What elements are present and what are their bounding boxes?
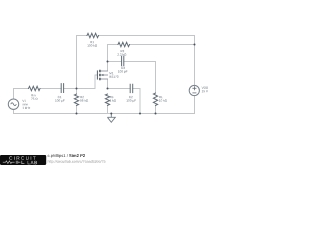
wire source node row to C2 and down to rail — [108, 89, 141, 114]
wire VDD vertical — [194, 45, 196, 114]
resistor RL 10k vertical — [153, 93, 157, 105]
wire V1 bottom lead — [13, 109, 15, 113]
capacitor C2 100uF plates — [130, 84, 133, 92]
junction dots — [76, 44, 196, 115]
voltage source V2 VDD 15V — [189, 85, 199, 95]
resistor R1 100k — [87, 33, 99, 37]
node drain/C3/R3 — [107, 61, 109, 63]
capacitor C3 100pF plates — [122, 56, 124, 65]
resistor R2 56k vertical — [74, 94, 78, 106]
label R3 — [118, 50, 127, 56]
node gate/C1/R1/R2 — [76, 88, 78, 90]
resistor Rs 1k vertical — [105, 94, 109, 105]
label M1 — [110, 72, 119, 78]
resistor Rin 75ohm — [29, 86, 41, 90]
label Rin — [31, 94, 37, 100]
label C1 — [55, 96, 64, 102]
wire ground rail — [14, 113, 195, 115]
capacitor C1 100uF plates — [61, 84, 63, 93]
wire gate lead — [95, 75, 97, 89]
label R1 — [87, 41, 97, 47]
ground symbol — [107, 114, 115, 123]
wire R1 branch vertical down to gate node — [76, 36, 78, 89]
footer logo LAB text — [28, 161, 37, 164]
wire RL bottom stub — [155, 105, 157, 113]
footer logo squiggle — [3, 161, 25, 164]
node RL bottom on rail — [155, 113, 157, 115]
footer url line — [48, 160, 106, 163]
wire Rs bottom stub — [107, 105, 109, 113]
wire input row from V1 through Rin and C1 to gate — [14, 89, 96, 100]
label Rs — [110, 96, 116, 102]
footer logo box — [0, 155, 46, 165]
label VDD — [202, 87, 208, 93]
node ground on rail — [110, 113, 112, 115]
resistor R3 2.2k — [118, 42, 130, 46]
voltage source V1 sine — [8, 99, 18, 109]
label RL — [159, 96, 167, 102]
node C2 bottom on rail — [139, 113, 141, 115]
node R3/VDD rail — [194, 44, 196, 46]
wire C3 output row to RL — [108, 62, 156, 94]
footer credit line — [48, 154, 85, 158]
label C2 — [127, 96, 137, 102]
node R2 bottom on rail — [76, 113, 78, 115]
wire R2 stubs — [76, 89, 78, 114]
label R2 — [80, 96, 88, 102]
wire drain row through R3 to VDD rail — [108, 44, 195, 46]
footer logo CIRCUIT text — [9, 156, 36, 159]
transistor M1 BS170 — [97, 70, 107, 80]
wire top rail from R1 to VDD rail — [77, 36, 195, 45]
label V1 — [22, 100, 30, 109]
label C3 — [118, 67, 127, 73]
wire drain vertical — [107, 45, 109, 72]
node source/Rs/C2 — [107, 88, 109, 90]
wire source vertical — [107, 79, 109, 89]
